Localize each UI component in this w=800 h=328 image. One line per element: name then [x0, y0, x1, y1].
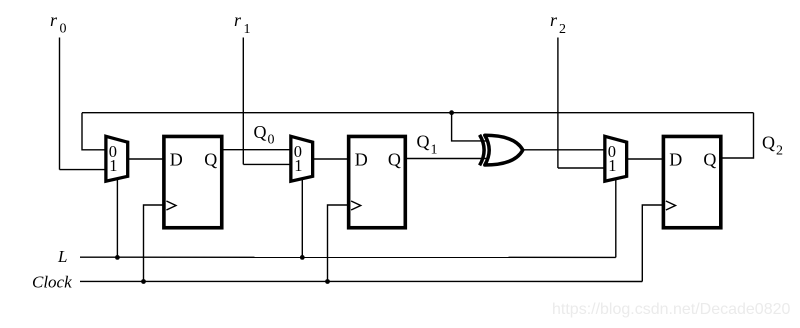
mux M2 [291, 136, 313, 181]
svg-text:L: L [57, 247, 67, 266]
wire L line [80, 256, 616, 258]
svg-text:Q: Q [703, 150, 716, 170]
flip-flop FF2 [349, 136, 406, 227]
svg-text:Clock: Clock [32, 273, 72, 292]
wire mux M1 output to FF1 D [127, 158, 166, 160]
node Q0 label [254, 122, 275, 148]
wire mux M3 output to FF3 D [626, 158, 666, 160]
svg-text:Q: Q [204, 150, 217, 170]
junction feedback tap [449, 110, 454, 115]
svg-text:1: 1 [294, 156, 302, 175]
svg-text:1: 1 [109, 156, 117, 175]
svg-text:1: 1 [608, 156, 616, 175]
xor gate G1 [480, 135, 523, 166]
mux M1 [106, 136, 128, 181]
wire FF3 clock stub [642, 205, 666, 282]
wire FF3 Q up to feedback (Q2 net) [720, 113, 754, 158]
svg-text:0: 0 [268, 133, 275, 148]
svg-text:2: 2 [559, 22, 566, 37]
wire FF2 clock stub [328, 205, 352, 282]
wire Clock line [80, 280, 642, 282]
wire xor G1 output to mux M3 input 0 [523, 149, 606, 151]
wire r2 vertical [557, 38, 559, 169]
wire mux M2 output to FF2 D [312, 158, 351, 160]
flip-flop FF1 [164, 136, 222, 227]
wire r0 vertical [59, 38, 61, 170]
svg-text:D: D [170, 150, 183, 170]
node Q2 label [762, 133, 783, 159]
node Q1 label [417, 132, 438, 158]
wire FF1 Q to mux M2 input 0 (Q0 net) [221, 149, 293, 151]
wire mux M3 select [615, 180, 617, 257]
junction FF2 clock on Clock [325, 279, 330, 284]
wire r0 to mux M1 input 1 [60, 169, 108, 171]
svg-text:https://blog.csdn.net/Decade08: https://blog.csdn.net/Decade0820 [552, 301, 790, 318]
wire FF2 Q to xor G1 lower input (Q1 net) [404, 158, 487, 160]
wire feedback tap to xor G1 upper input [452, 113, 487, 141]
wire mux M2 select [301, 180, 303, 257]
junction mux M1 select on L [115, 255, 120, 260]
svg-text:r: r [234, 10, 242, 30]
svg-text:Q: Q [388, 150, 401, 170]
flip-flop FF3 [663, 136, 720, 227]
svg-text:Q: Q [254, 122, 267, 142]
node r2 label [550, 10, 566, 37]
mux M3 [605, 136, 627, 181]
svg-text:r: r [550, 10, 558, 30]
wire feedback left drop to mux M1 input 0 [82, 113, 107, 150]
svg-text:Q: Q [417, 132, 430, 152]
wire r2 to mux M3 input 1 [558, 167, 606, 169]
wire r1 to mux M2 input 1 [243, 163, 292, 165]
wire feedback top (Q2 net) [82, 112, 754, 114]
svg-text:1: 1 [431, 143, 438, 158]
svg-text:D: D [355, 150, 368, 170]
junction FF1 clock on Clock [141, 279, 146, 284]
svg-text:0: 0 [60, 22, 67, 37]
node r1 label [234, 10, 251, 37]
wire FF1 clock stub [144, 205, 167, 282]
svg-text:r: r [50, 10, 58, 30]
wire mux M1 select [116, 180, 118, 257]
node r0 label [50, 10, 67, 37]
svg-text:Q: Q [762, 133, 775, 153]
junction mux M2 select on L [300, 255, 305, 260]
svg-text:2: 2 [776, 144, 783, 159]
svg-text:D: D [669, 150, 682, 170]
svg-text:1: 1 [244, 22, 251, 37]
wire r1 vertical [242, 38, 244, 165]
